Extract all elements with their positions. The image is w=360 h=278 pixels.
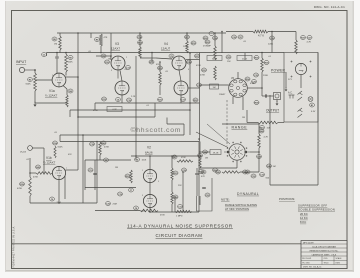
svg-text:6.3V: 6.3V [311,111,316,113]
ganged dash link V6-switch [226,100,228,146]
svg-text:JK-1B: JK-1B [20,152,26,154]
wire output gnd drop [276,100,278,103]
wire mesh y139 long [60,141,199,143]
wire range top [222,123,259,125]
svg-text:DWG. NO. 114-A-C1: DWG. NO. 114-A-C1 [303,266,322,269]
resistor R31 [214,66,217,80]
junction dot 7 [110,55,112,57]
wire V4 grid [140,57,156,59]
svg-text:6: 6 [188,69,189,71]
svg-text:DWG. NO. 114-A-C1: DWG. NO. 114-A-C1 [314,5,345,9]
wire x85 down [84,160,86,190]
resistor R40 [99,142,102,155]
svg-text:500K: 500K [26,84,32,86]
junction dot 10 [159,61,161,63]
bubble R44 [203,150,208,154]
wire y212 bottom bus [150,211,199,213]
bubble R4 [68,89,73,93]
svg-text:1M: 1M [273,166,276,168]
wire mesh x155 [154,103,156,117]
bubble R14b [53,141,58,145]
triode V4a [172,56,186,70]
rectifier pin marks [291,61,312,78]
wire grid to V4a [156,58,172,59]
bubble C4b [135,158,140,162]
capacitor C10 [93,173,97,174]
svg-text:½ 12AX7: ½ 12AX7 [45,93,58,97]
svg-text:4.7K: 4.7K [112,109,117,111]
tube socket V6 center [236,86,239,89]
capacitor C30 [195,173,199,174]
title block table [301,241,347,269]
bubble C22 [205,193,210,197]
bubble C9 [104,158,109,162]
bubble C21 [201,170,206,174]
bubble R25 [198,154,203,158]
capacitor C1 [55,57,59,58]
wire mesh x83 [82,135,84,203]
wire R15 bot [159,85,161,95]
wire V6 down b [242,97,244,111]
bus stage2 y160 [85,159,131,161]
bubble R50a [213,168,218,172]
bubble R38 [254,101,259,105]
wire mesh x167 [166,118,168,125]
svg-text:2: 2 [52,75,53,77]
wire power left [269,123,271,186]
junction dot 13 [189,102,191,104]
bubble R10 [105,60,110,64]
resistor R3 cathode [66,95,68,107]
wire R40 bottom [99,155,101,160]
ac plug symbol [289,95,295,99]
wire R51 left [247,122,258,124]
bubble R49 [267,164,272,168]
svg-text:POWER: POWER [271,69,286,73]
wire v2 y156 [131,155,199,157]
wire V2a-V2b [149,183,151,195]
rail x296 drop [295,32,297,41]
boxed label gate B [237,56,252,61]
svg-text:470K: 470K [181,157,186,159]
wire mesh y124 [167,123,184,125]
wire V1a plate right [66,76,79,78]
wire x262 output [261,88,263,96]
bubble R36 [264,61,269,65]
bubble R6 [52,37,57,41]
bubble C27b [307,36,312,40]
svg-text:1M: 1M [213,87,216,89]
rail x152 [151,53,153,63]
svg-text:INPUT: INPUT [16,60,26,64]
wire R15 top [159,62,161,72]
bubble C29 [182,168,187,172]
junction dot 12 [189,52,191,54]
wire x200 drop [199,196,201,205]
resistor R37 [295,40,298,54]
resistor R24 [171,192,173,204]
bubble R19 [187,60,192,64]
junction dot 15 [198,138,200,140]
wire x172 mid [171,180,173,192]
B+ wire to power [268,31,296,33]
junction dot 11 [186,32,188,34]
triode V3a [111,56,125,70]
bubble C12 [126,66,131,70]
wire mesh x70 [69,110,71,117]
bubble B1 [310,103,315,107]
resistor R23 mid [171,168,173,180]
wire R36 bottom [261,72,263,88]
svg-text:25M: 25M [113,204,117,206]
paper right edge shadow [353,1,354,272]
bubble C6 [50,197,55,201]
boxed label gate A [207,56,222,61]
wire C1 up [56,53,58,57]
bubble R45b [216,170,221,174]
wire V3a link2 [120,70,122,81]
svg-text:15K: 15K [227,61,231,63]
wire rect down [300,75,302,88]
wire R40 top [99,141,101,144]
svg-text:1: 1 [142,170,143,172]
svg-text:SCALE: SCALE [336,257,343,260]
svg-text:HERMON HOSMER SCOTT, INC.: HERMON HOSMER SCOTT, INC. [310,250,339,252]
wire x197b [196,182,198,196]
wire R14 top [139,33,141,47]
wire x78 to v1b [77,117,79,170]
wire C30 down [196,175,198,182]
svg-text:7: 7 [172,57,173,59]
junction dot 18 [221,31,223,33]
triode V1a [52,73,66,87]
wire V4b down [180,95,182,103]
svg-text:100K: 100K [68,62,74,64]
resistor R9 [100,34,103,46]
wire switch left [199,151,210,153]
wire V4a to rail [186,59,200,61]
svg-text:470MMF: 470MMF [203,46,212,48]
resistor R29 [214,46,217,60]
bubble R15 [158,66,163,70]
resistor R5 plate [65,54,68,72]
svg-text:10K: 10K [267,128,271,130]
junction dot input [34,69,36,71]
wire x286 in box [285,72,287,88]
wire cap drop [46,53,48,57]
triode V1b [52,166,65,179]
bubble R23 [173,171,178,175]
wire V1b plate [66,169,79,171]
bubble C5 [169,54,174,58]
rail x272 [271,32,273,53]
svg-text:47K: 47K [68,154,72,156]
wire mesh y117 [78,116,155,118]
wire V3a-V3b [117,70,119,79]
junction dot 20 [261,87,263,89]
bubble R37 [301,36,306,40]
bubble R35 [254,56,259,60]
bubble R29 [205,40,210,44]
wire V1b bottom [58,180,60,203]
top row bubbles C26 C27 [232,35,237,39]
svg-text:DYNAURAL: DYNAURAL [237,192,259,196]
bubble C16 [127,98,132,102]
junction dot 1 [56,52,58,54]
wire V2b bottom [149,208,151,213]
wire R6 top [59,33,61,36]
wire grid V1a [35,79,53,81]
junction dot 2 [65,52,67,54]
junction dot 32 [182,171,184,173]
wire x200 top [199,142,201,156]
bubble R17 [185,35,190,39]
rail x91 [90,33,92,38]
bubble C28 [257,155,262,159]
wire R5 down [65,72,67,76]
wire jack2 to grid [43,155,45,173]
wire V6 right [247,87,262,89]
wire V6 down a [232,97,234,105]
wire x199 v2 [198,142,200,213]
bubble C19 [118,192,123,196]
wire R39 bottom [29,196,31,203]
junction dot 31 [58,202,60,204]
wire V6 left [200,84,229,86]
svg-text:RANGE SWITCH SHOWN: RANGE SWITCH SHOWN [225,203,257,207]
wire R9 down [100,46,102,53]
svg-text:47K: 47K [201,176,205,178]
capacitor C22 [202,187,206,188]
bubble C25 [226,55,231,59]
bubble R20a [125,174,130,178]
wire R2 bottom [34,91,36,103]
wire R42 left down [29,158,31,177]
junction dot 8 [139,32,141,34]
resistor R45b [222,171,240,173]
rotary switch S2 contacts [227,142,248,163]
output jack J2 [274,93,281,100]
resistor R6 [59,36,62,50]
wire R6 bottom [59,50,61,53]
wire C30 up [196,168,198,173]
bus 2 horizontal [47,52,285,54]
rotary switch S2 hub [235,150,239,154]
bubble C3 [101,54,106,58]
junction dot 19 [261,52,263,54]
svg-text:AT 'OFF' POSITION: AT 'OFF' POSITION [225,207,249,211]
bubble R47h [172,155,177,159]
switch S1 contact 1 [298,91,303,95]
power box [284,53,318,123]
wire V6 plate up [237,72,239,79]
svg-text:1M: 1M [115,167,118,169]
wire V3b down [121,95,123,103]
svg-text:3: 3 [111,70,112,72]
pentode V2a [143,169,156,182]
svg-text:2: 2 [126,57,127,59]
bubble R18 [191,41,196,45]
bubble C23 [197,83,202,87]
bubble R22 [193,98,198,102]
svg-text:220K: 220K [263,75,269,77]
bubble R2 [28,78,33,82]
junction dot 23 [96,141,98,143]
bubble R5 [68,56,73,60]
resistor R2 grid [34,73,37,91]
resistor R15 mid [159,72,162,85]
svg-text:2.2K: 2.2K [131,96,136,98]
bubble R21 [158,98,163,102]
B+ bus top right segment [226,31,253,33]
junction dot 25 [135,155,137,157]
svg-text:1: 1 [110,57,111,59]
bubble C7 [129,188,134,192]
bubble R9 [95,38,100,42]
svg-text:12AU7: 12AU7 [161,47,171,51]
svg-text:V3: V3 [115,42,119,46]
junction dot 5 [77,116,79,118]
rectifier V5 [295,63,306,74]
svg-text:OUTPUT: OUTPUT [266,109,279,113]
junction dot 28 [149,211,151,213]
triode V3b [115,81,129,95]
svg-text:500K: 500K [58,147,64,149]
wire R51 right [278,122,284,124]
svg-text:CKD.: CKD. [324,258,329,260]
boxed label JR-1B [210,150,221,155]
bubble R14 [138,41,143,45]
svg-text:FORM 4417 PRINTED IN U.S.A.: FORM 4417 PRINTED IN U.S.A. [13,226,16,268]
svg-text:6AU6: 6AU6 [145,151,153,155]
rail x78 [77,33,79,117]
bubble C20 [106,202,111,206]
bubble C17 [181,98,186,102]
triode V4b [174,81,188,95]
wire x183 down [182,172,184,212]
svg-text:1M: 1M [242,117,245,119]
wire R48 bot [258,148,260,152]
component box K1 [197,178,213,211]
bubble C24 [213,36,218,40]
svg-text:100K: 100K [142,160,147,162]
pilot lamp B1 [308,97,313,102]
wire x172 bot [171,204,173,212]
junction dot 21 [271,31,273,33]
wire mesh y103 [95,102,200,104]
wire grid to V3a [110,56,112,60]
bubble C10 [88,168,93,172]
bubble R43 [199,170,204,174]
bubble R51 [260,126,265,130]
wire power rail right [317,53,319,186]
wire mesh y110 [70,109,190,111]
junction dot 22 [258,151,260,153]
wire y187 stage2 [85,187,136,189]
resistor R45h [140,209,158,212]
bubble C18 [90,142,95,146]
bubble R42 [36,165,41,169]
wire V1a cathode [63,86,67,90]
resistor R47h top [177,160,193,162]
bubble R46 [243,170,248,174]
svg-text:4.7K: 4.7K [264,137,269,139]
svg-text:100K: 100K [183,46,188,48]
junction dot 30 [29,172,31,174]
svg-text:3: 3 [142,195,143,197]
wire x65 r [64,176,66,199]
wire V2a top [149,156,151,170]
wire x97 down [96,142,98,204]
svg-text:47K: 47K [104,37,108,39]
wire R42 left [30,172,36,174]
resistor R39 [29,177,32,196]
wire y172 stub [240,171,259,173]
rail x199 long [199,53,201,142]
svg-text:POSITIONS:: POSITIONS: [279,197,295,201]
rail x136 long [135,56,137,160]
svg-text:5: 5 [158,181,159,183]
rotary switch S2 outer [229,144,245,160]
wire jack2 right [32,147,44,149]
wire jack junction [34,70,36,73]
jack JK-1B [28,146,33,151]
wire switch right link [250,151,259,153]
wire V4b to rail [189,87,200,89]
wire mesh x184 [183,124,185,135]
boxed label R13 [107,107,122,112]
svg-text:470K: 470K [93,110,98,112]
border inner bottom margin line [12,243,348,245]
wire cathode drop [66,89,68,95]
svg-text:25M: 25M [141,211,145,213]
wire diag to switch 1 [196,132,228,148]
bubble C11 [178,205,183,209]
svg-text:7: 7 [66,168,67,170]
wire x95b down [94,160,96,190]
junction dot 27 [149,155,151,157]
ground sym output [276,101,279,106]
switch S1 contact 4 [298,114,303,118]
wire power bottom [270,184,318,186]
bubble C26b [270,36,275,40]
svg-text:470K: 470K [196,65,201,67]
svg-text:A.C.: A.C. [288,92,293,95]
bubble pair left of V6 col [203,36,208,40]
svg-text:1M: 1M [54,44,57,46]
bubble C35 [254,73,259,77]
resistor R26 4.7K inline [253,30,268,33]
junction dot 4 [77,76,79,78]
svg-text:V4: V4 [164,42,168,46]
wire C1 to tube [56,59,58,74]
bubble R31 [202,68,207,72]
svg-text:GATE: GATE [212,57,218,60]
resistor R36 [261,58,264,72]
wire mesh y131 [60,134,184,136]
rail x111 [110,33,112,56]
wire R36 top [261,53,263,59]
svg-text:DWG: DWG [336,262,341,264]
wire ground bus [35,102,67,104]
boxed label R33 [210,84,219,89]
wire gate y53 drop x245 [244,53,246,60]
rail x222 [221,32,223,54]
wire mesh x95 up [94,103,96,110]
svg-text:NOTE:: NOTE: [221,198,230,202]
svg-text:CIRCUIT DIAGRAM: CIRCUIT DIAGRAM [156,233,203,238]
paper bottom edge shadow [5,270,354,271]
